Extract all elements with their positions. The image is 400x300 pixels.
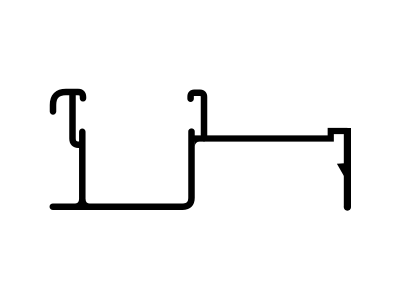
left spur vertical down to bottom bar: [79, 132, 86, 207]
left T-stem with jog: [73, 91, 83, 145]
fillets at bottom-bar / left vertical T junction: [75, 199, 91, 204]
fillet at bottom-bar / middle vertical inner corner: [184, 199, 189, 204]
right vertical of main bar: [344, 128, 351, 207]
middle stem with top hook: [191, 93, 204, 139]
left hook (umbrella handle with top bar and right stub): [53, 92, 83, 112]
barb triangle on right vertical: [337, 163, 345, 177]
fillet under main bar right of middle vertical: [195, 142, 200, 147]
main horizontal bar with step and right vertical: [192, 131, 348, 139]
bottom bar with right upturn into middle vertical: [53, 132, 192, 207]
